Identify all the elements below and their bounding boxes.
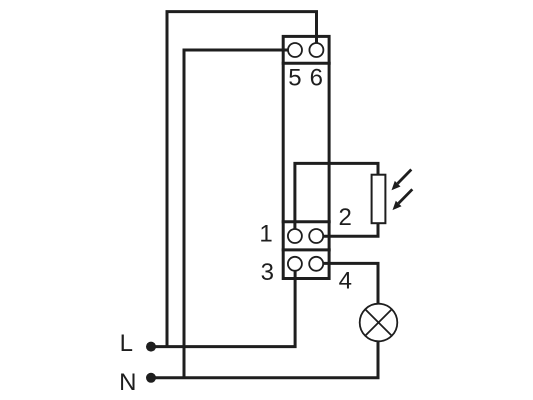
terminal 5 circle [288, 43, 302, 57]
wire: terminal 1 up and right to LDR top [295, 163, 378, 230]
divider between terminal rows 1 2 and 3 4 [282, 248, 331, 251]
terminal 2 circle [309, 229, 323, 243]
svg-text:4: 4 [339, 267, 352, 294]
node N junction dot [146, 373, 156, 383]
svg-text:1: 1 [259, 221, 272, 248]
wire N1: terminal 5 left, down to N line [184, 50, 288, 378]
terminal 4 circle [309, 257, 323, 271]
svg-text:5: 5 [288, 64, 301, 91]
terminal 1 circle [288, 229, 302, 243]
light arrow 1 [392, 170, 412, 191]
lamp E1 [360, 304, 398, 342]
relay body U1 [283, 36, 329, 278]
wire L1: terminal 6 up, across top, down left side to L line [167, 12, 317, 347]
wire: LDR bottom down and left to terminal 2 [324, 223, 379, 237]
photoresistor R1 body [372, 175, 386, 224]
wire N feed: N dot right, up to lamp bottom [151, 341, 378, 377]
node L junction dot [146, 342, 156, 352]
light arrow 2 [393, 189, 413, 210]
svg-text:3: 3 [261, 259, 274, 286]
wire: terminal 4 to lamp top [324, 263, 379, 304]
svg-text:6: 6 [310, 64, 323, 91]
svg-text:L: L [120, 330, 133, 357]
terminal 3 circle [288, 257, 302, 271]
wire L feed: L dot right, up to terminal 3 [151, 270, 295, 346]
divider above terminals 1 2 [282, 220, 331, 223]
svg-text:N: N [119, 369, 136, 396]
terminal 6 circle [309, 43, 323, 57]
divider below terminals 5 6 [282, 62, 331, 65]
svg-text:2: 2 [339, 204, 352, 231]
